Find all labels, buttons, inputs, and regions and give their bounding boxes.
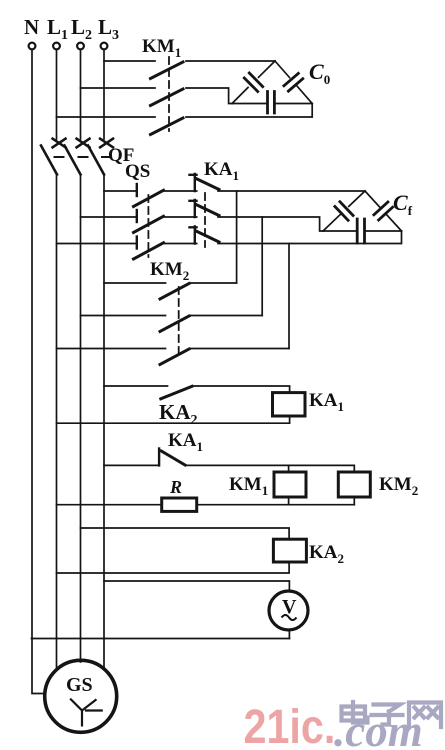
switch QS linkage [147,195,149,257]
wire dropper row2 to KM2 [261,217,263,316]
capacitor C0 left plates [244,73,262,92]
wire QS row2 out [165,216,197,218]
wire voltmeter bottom [288,630,290,639]
wire KA1 coil return [57,416,290,423]
svg-text:N: N [24,15,39,39]
wire KM1 row1 in [104,60,155,62]
terminal L1 [53,43,60,50]
watermark char zi [372,705,403,725]
relay contact KA1 tick 3 [190,227,197,244]
wire L3 bus lower [103,175,105,670]
contactor coil KM1 [274,472,306,497]
wire KM2 row2 out [190,315,262,317]
wire C0 bottom rail [232,103,312,105]
wire L3 bus upper [103,50,105,139]
contactor KM1 linkage [168,57,170,131]
breaker QF ticks [55,156,112,158]
relay contact KA2 blade [161,386,192,399]
relay coil KA1 [273,393,306,416]
wire KM1 row3 in [57,116,156,118]
svg-text:GS: GS [66,674,93,696]
voltmeter tilde [282,615,297,620]
wire KM1 row2 in [81,87,156,89]
wire dropper row1 to KM2 [236,191,238,283]
wire QS row2 in [81,216,136,218]
wire QS row3 out [165,243,197,245]
switch QS blade 1 [134,190,164,206]
wire KA2 coil return [57,562,290,573]
contactor KM1 blade 3 [151,118,184,135]
wire KM2 row2 in [81,315,166,317]
relay contact KA1 NC blade [161,451,185,465]
svg-text:QS: QS [125,161,150,182]
wire QS row1 in [104,190,136,192]
wire QS row1 out [165,190,197,192]
contactor KM2 blade 1 [160,284,189,300]
wire N bottom rail [32,638,290,640]
wire N bus vertical [32,50,45,694]
relay contact KA1 blade 1 [196,179,219,190]
wire R in from L1 [57,504,162,506]
capacitor Cf bottom plates [357,219,364,243]
wire KM2 row1 out [190,282,237,284]
resistor R [162,498,197,511]
capacitor C0 right branch [275,61,312,104]
terminal L2 [77,43,84,50]
relay contact KA1 NC tick [158,449,160,466]
wire voltmeter feed [104,581,289,591]
switch QS blade 2 [134,216,164,232]
wire L2 bus upper [80,50,82,139]
wire KM1 coil top tap [288,465,290,472]
wire KM coils bottom rail [197,504,355,506]
contactor KM2 linkage [178,287,180,357]
wire KM2 coil bottom tap [353,497,355,505]
svg-text:21ic.: 21ic. [244,700,336,750]
capacitor Cf left branch [323,191,365,231]
switch QS blade 3 [134,243,164,259]
watermark char wang [409,703,441,728]
wire KA1 row2 out [218,217,323,231]
relay contact KA1 blade 3 [196,231,219,242]
relay contact KA1 tick 2 [190,200,197,217]
watermark char dian [342,702,368,723]
breaker QF blade 1 [41,146,57,175]
wire KA1 NC row in [104,464,159,466]
switch QS tick 3 [136,237,138,249]
terminal N [29,43,36,50]
wire KA2 coil feed [81,528,290,539]
breaker QF blade 3 [88,146,104,175]
capacitor C0 left branch [232,61,275,104]
svg-text:R: R [169,477,182,497]
capacitor Cf right branch [365,191,402,231]
contactor KM2 blade 2 [160,316,189,332]
breaker QF cross marks [53,139,113,148]
switch QS tick 1 [136,184,138,196]
relay coil KA2 [273,539,306,562]
wire KM2 row3 out [190,348,289,350]
generator star symbol [71,699,102,725]
relay contact KA1 linkage [204,193,206,247]
relay contact KA1 tick 1 [190,174,197,191]
wire KM1 coil bottom tap [288,497,290,505]
wire KM1 row1 out [186,60,275,62]
wire KA2 contact row out [193,386,290,393]
contactor KM1 blade 1 [151,62,184,79]
wire KA1 row3 rail [218,231,402,244]
wire KM1 row3 out [186,104,312,118]
wire KM1 row2 out [186,88,232,104]
relay contact KA1 blade 2 [196,205,219,216]
capacitor C0 bottom plates [268,92,275,114]
contactor coil KM2 [338,472,370,497]
voltmeter V [269,591,308,630]
wire dropper row3 to KM2 [288,244,290,349]
svg-text:.com: .com [334,706,423,750]
wire L1 bus upper [56,50,58,139]
wire Cf bottom rail [323,230,402,232]
capacitor Cf right plates [374,202,393,220]
wire QS row3 in [57,243,136,245]
wire KM2 row3 in [57,348,166,350]
wire L1 bus lower [56,175,58,671]
terminal L3 [101,43,108,50]
capacitor Cf left plates [335,202,353,221]
wire KM coils top rail [186,465,354,472]
breaker QF blade 2 [65,146,81,175]
capacitor C0 right plates [284,73,303,91]
wire KA1 row1 out [218,190,365,192]
contactor KM2 blade 3 [160,349,189,365]
generator GS circle [45,660,117,732]
switch QS tick 2 [136,210,138,222]
wire L2 bus lower [80,175,82,663]
wire KA2 contact row in [104,385,168,387]
contactor KM1 blade 2 [151,89,184,106]
wire KM2 row1 in [104,282,166,284]
